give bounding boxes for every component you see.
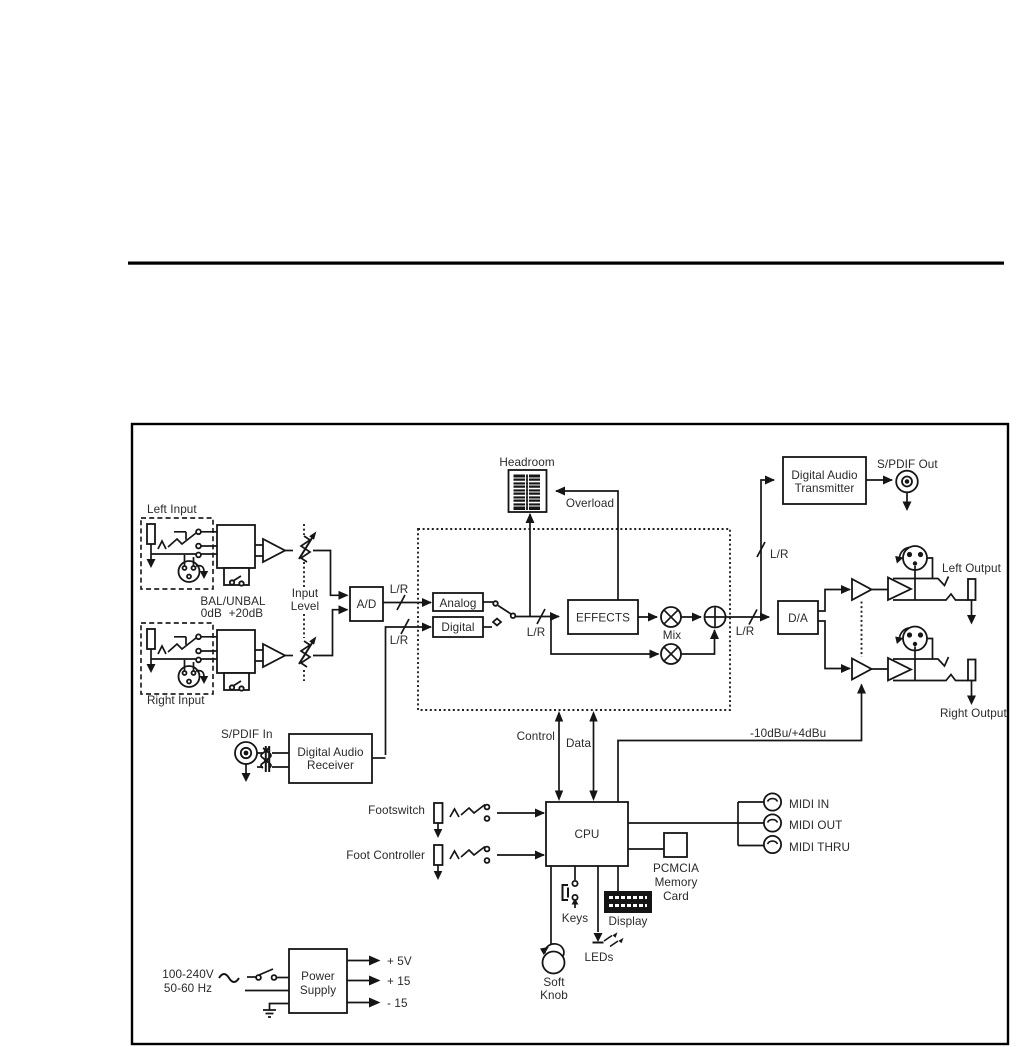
slash L/R (401, 619, 409, 634)
D/A to amps branch wires (818, 590, 850, 612)
left output jack (968, 579, 976, 600)
sine contact (158, 646, 166, 654)
svg-text:A/D: A/D (357, 598, 377, 611)
wire receiver to digital line (372, 757, 386, 759)
gain switch contacts (230, 685, 234, 689)
footswitch lever (461, 805, 485, 816)
ground arrow below RCA (245, 764, 247, 774)
svg-text:MIDI IN: MIDI IN (789, 798, 829, 811)
MIDI IN connector (764, 793, 781, 810)
svg-text:Data: Data (566, 737, 591, 750)
XLR rotation arrow (900, 628, 910, 639)
wire mix to summer (681, 616, 701, 618)
svg-text:Digital: Digital (441, 621, 474, 634)
svg-text:0dB +20dB: 0dB +20dB (201, 607, 264, 620)
XLR connector (179, 561, 200, 582)
display module (604, 891, 652, 913)
svg-text:L/R: L/R (527, 626, 546, 639)
left line amp triangle (852, 579, 872, 600)
svg-text:Digital Audio: Digital Audio (791, 469, 858, 482)
svg-text:50-60 Hz: 50-60 Hz (164, 982, 212, 995)
control bus double arrow (558, 720, 560, 793)
svg-text:S/PDIF Out: S/PDIF Out (877, 458, 938, 471)
wire jack bus (151, 658, 217, 660)
svg-text:MIDI OUT: MIDI OUT (789, 819, 842, 832)
svg-text:LEDs: LEDs (585, 951, 614, 964)
A/D converter box U1 (350, 587, 383, 621)
contact point b (196, 544, 201, 549)
XLR ground hook arrow (196, 671, 204, 677)
gain switch sub-box (224, 673, 249, 690)
svg-text:Overload: Overload (566, 497, 614, 510)
wire A/D to Analog with L/R slash (383, 602, 431, 604)
wire jack to ground (150, 544, 152, 560)
mix multiplier circle X top (661, 607, 681, 627)
XLR pins (183, 566, 187, 570)
wire CPU to display (617, 866, 619, 891)
ground arrow (147, 559, 156, 568)
svg-text:Mix: Mix (663, 629, 682, 642)
svg-text:Level: Level (291, 600, 319, 613)
keys contact bottom (572, 895, 577, 900)
keys stem arrow (574, 902, 576, 908)
dry multiplier circle X bottom (661, 644, 681, 664)
left input 1/4-inch jack J (147, 524, 155, 544)
right output jack (968, 660, 976, 681)
XLR pins (183, 671, 187, 675)
attenuator arrow (299, 643, 312, 664)
XLR side wire (927, 639, 933, 660)
digital open contact diamond (493, 619, 501, 626)
svg-text:Memory: Memory (655, 876, 698, 889)
XLR rotation arrow (900, 548, 910, 559)
XLR stem wire (914, 566, 916, 600)
svg-text:L/R: L/R (390, 634, 409, 647)
XLR side wire (927, 558, 933, 579)
power supply box (289, 949, 347, 1013)
foot controller ground arrow (437, 865, 439, 872)
Headroom meter outer box (509, 470, 547, 512)
gain switch contacts (230, 580, 234, 584)
keys contact top (572, 881, 577, 886)
level attenuator zigzag (301, 536, 310, 562)
balanced input stage box (217, 630, 255, 673)
svg-text:Input: Input (292, 587, 319, 600)
input amp triangle (263, 539, 285, 562)
PSU -15 output arrow (347, 1002, 369, 1004)
svg-text:PCMCIA: PCMCIA (653, 862, 699, 875)
summing node circle plus (705, 607, 726, 628)
svg-text:Display: Display (608, 915, 647, 928)
left input dashed enclosure (141, 518, 213, 589)
right output stage triangle (888, 658, 911, 681)
XLR ground hook arrow (196, 566, 204, 572)
MIDI THRU connector (764, 836, 781, 853)
Digital Audio Transmitter box (783, 457, 866, 504)
svg-text:+ 15: + 15 (387, 975, 411, 988)
keys button shape (563, 885, 569, 900)
svg-text:+ 5V: + 5V (387, 955, 412, 968)
mains switch contacts (256, 975, 261, 980)
input level gang dashed line (303, 524, 305, 681)
wire jack bus (151, 553, 217, 555)
S/PDIF Out RCA connector (896, 471, 918, 493)
svg-text:-10dBu/+4dBu: -10dBu/+4dBu (750, 727, 826, 740)
PSU +15 output arrow (347, 980, 369, 982)
Headroom meter bars (514, 475, 541, 511)
svg-text:- 15: - 15 (387, 997, 408, 1010)
gain switch lever (233, 681, 241, 686)
wire switch to EFFECTS with slash (516, 616, 560, 618)
svg-text:Card: Card (663, 890, 689, 903)
input amp triangle (263, 644, 285, 667)
left output XLR connector (903, 546, 927, 570)
source switch lever (498, 606, 511, 615)
LED symbol (594, 933, 603, 942)
svg-text:Foot Controller: Foot Controller (346, 849, 425, 862)
footswitch sine (450, 809, 459, 817)
svg-text:Headroom: Headroom (499, 456, 554, 469)
svg-text:Transmitter: Transmitter (795, 482, 855, 495)
wire attenuator to A/D left ch (313, 551, 331, 590)
mains switch lever (259, 969, 273, 975)
contact point a (196, 634, 201, 639)
LED emission arrows (604, 936, 612, 942)
stub wires box to amp (255, 545, 263, 556)
wire amp L to output stage (872, 589, 889, 591)
bottom rail wire with hump (893, 594, 968, 600)
svg-text:L/R: L/R (390, 583, 409, 596)
svg-text:Soft: Soft (543, 976, 565, 989)
contact point b (196, 649, 201, 654)
footswitch jack (434, 803, 443, 823)
dry path wire down (551, 617, 659, 655)
balanced input stage box (217, 525, 255, 568)
right line amp triangle (852, 659, 872, 680)
wire jack to ground (150, 649, 152, 665)
wire CPU to keys (574, 866, 576, 880)
slash L/R (757, 542, 765, 557)
XLR connector (179, 666, 200, 687)
svg-text:EFFECTS: EFFECTS (576, 612, 630, 625)
foot controller lever (461, 847, 485, 858)
svg-text:Left Input: Left Input (147, 503, 197, 516)
foot controller contacts (485, 847, 490, 852)
svg-text:Knob: Knob (540, 989, 568, 1002)
mains neutral wire (245, 990, 289, 992)
svg-text:Power: Power (301, 970, 335, 983)
stub wires to input box (174, 532, 217, 546)
wire CPU to LEDs (597, 866, 599, 932)
wire attenuator to A/D right ch (313, 616, 333, 656)
data bus double arrow (593, 720, 595, 793)
gang dotted line between amps (861, 602, 863, 658)
left output stage triangle (888, 578, 911, 601)
D/A converter box (778, 601, 818, 634)
XLR pins (907, 632, 912, 637)
bottom rail wire with hump (893, 675, 968, 681)
wire foot controller to CPU (497, 854, 544, 856)
right output XLR connector (903, 627, 927, 651)
wire transmitter to S/PDIF out (866, 479, 892, 481)
svg-text:S/PDIF In: S/PDIF In (221, 728, 273, 741)
wire EFFECTS to mix multiplier (638, 616, 657, 618)
wire spdif-receiver to Digital with L/R slash (386, 627, 432, 755)
ground symbol (263, 1010, 276, 1017)
gain switch lever (233, 576, 241, 581)
Digital box (433, 617, 483, 637)
wire CPU to MIDI bracket (628, 822, 738, 824)
svg-text:D/A: D/A (788, 612, 808, 625)
gain switch sub-box (224, 568, 249, 585)
top rail wire with break (893, 577, 949, 586)
wire summer to D/A with slash (726, 616, 770, 618)
svg-text:Footswitch: Footswitch (368, 804, 425, 817)
soft knob circle (543, 952, 565, 974)
sine contact (158, 541, 166, 549)
slash L/R (537, 609, 545, 624)
svg-text:Keys: Keys (562, 912, 588, 925)
svg-text:Left Output: Left Output (942, 562, 1002, 575)
ground arrow below jack (971, 681, 973, 697)
right input dashed enclosure (141, 623, 213, 694)
switch contact top (493, 601, 498, 606)
MIDI bracket (738, 802, 764, 846)
MIDI OUT connector (764, 814, 781, 831)
footswitch contacts (485, 805, 490, 810)
wire amp to attenuator (285, 550, 293, 552)
attenuator arrow (299, 538, 312, 559)
transformer coupling (257, 753, 263, 767)
XLR pin wires (185, 660, 194, 671)
top rail wire with break (893, 657, 949, 666)
XLR stem wire (914, 647, 916, 681)
wire footswitch to CPU (497, 812, 544, 814)
slash L/R (397, 595, 405, 610)
switch contact pole (511, 613, 516, 618)
wire junction up to headroom meter (529, 514, 531, 617)
Digital Audio Receiver box (289, 734, 372, 783)
PCMCIA card box (664, 833, 687, 857)
wire dry mult to summer bottom (681, 630, 715, 654)
wire CPU to PCMCIA (628, 848, 664, 850)
svg-text:Receiver: Receiver (307, 759, 354, 772)
wire amp R to output stage (872, 668, 889, 670)
DSP dashed enclosure (418, 529, 730, 710)
svg-text:Supply: Supply (300, 984, 336, 997)
svg-text:100-240V: 100-240V (162, 968, 214, 981)
top horizontal rule (128, 262, 1004, 265)
foot controller jack (434, 845, 443, 865)
CPU box (546, 802, 628, 866)
svg-text:Analog: Analog (440, 597, 477, 610)
svg-text:CPU: CPU (575, 828, 600, 841)
PSU +5V output arrow (347, 960, 369, 962)
PSU ground wire (270, 1004, 290, 1011)
contact point a (196, 529, 201, 534)
wire analog to switch contact (483, 601, 493, 603)
svg-text:L/R: L/R (770, 548, 789, 561)
foot controller sine (450, 851, 459, 859)
XLR pin wires (185, 555, 194, 566)
wire junction up to transmitter with L/R slash (761, 480, 774, 617)
svg-text:L/R: L/R (736, 625, 755, 638)
slash L/R (749, 610, 757, 625)
mains sine symbol (219, 974, 239, 982)
contact point c (196, 553, 201, 558)
stub wires to input box (174, 637, 217, 651)
switch lever (168, 533, 196, 547)
wire digital stub (483, 626, 492, 628)
svg-text:Digital Audio: Digital Audio (297, 746, 364, 759)
svg-text:Control: Control (517, 730, 555, 743)
level control wire from CPU (618, 685, 862, 803)
wire CPU to soft knob (550, 866, 552, 944)
switch lever (168, 638, 196, 652)
stub wires box to amp (255, 650, 263, 661)
S/PDIF In RCA connector (235, 742, 257, 764)
svg-text:MIDI THRU: MIDI THRU (789, 841, 850, 854)
overload wire from EFFECTS top to meter (556, 491, 618, 600)
contact point c (196, 658, 201, 663)
mains switch wire live (247, 976, 256, 978)
diagram border frame (132, 424, 1008, 1044)
EFFECTS box (568, 600, 638, 634)
wire amp to attenuator (285, 655, 293, 657)
level attenuator zigzag (301, 641, 310, 667)
ground arrow (147, 664, 156, 673)
ground arrow below jack (971, 600, 973, 616)
ground arrow below S/PDIF out (906, 493, 908, 503)
svg-text:Right Input: Right Input (147, 694, 205, 707)
Analog box (433, 593, 483, 611)
footswitch ground arrow (437, 823, 439, 830)
wire switch to PSU (277, 977, 290, 979)
svg-text:Right Output: Right Output (940, 707, 1007, 720)
XLR pins (907, 552, 912, 557)
soft knob rotation arrow (545, 944, 564, 956)
right input 1/4-inch jack J (147, 629, 155, 649)
